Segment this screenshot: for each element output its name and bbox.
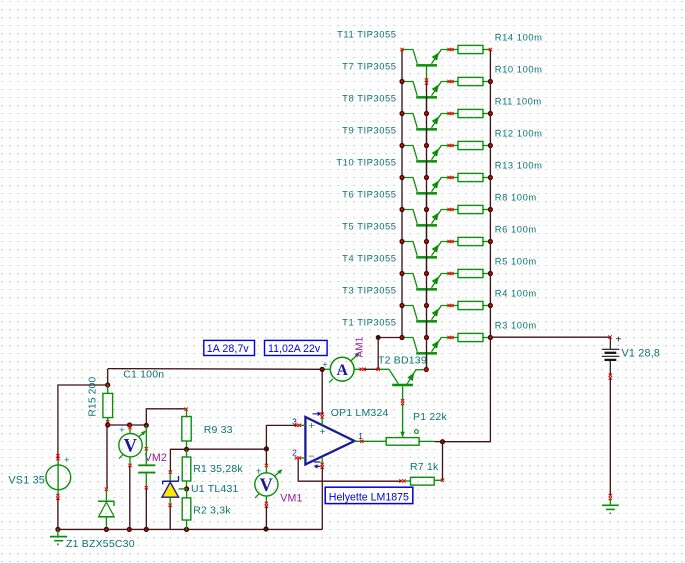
- node R9 bottom / ref: [184, 447, 189, 452]
- resistor R7 1k: [404, 477, 443, 485]
- transistor T6 TIP3055: [402, 210, 451, 242]
- wire supply bus top: [108, 368, 323, 371]
- resistor R14 100m: [451, 45, 491, 53]
- svg-text:R6 100m: R6 100m: [495, 223, 537, 234]
- node bus VM1: [263, 526, 268, 531]
- node VS1/R15: [105, 382, 110, 387]
- resistor R9 33: [182, 410, 191, 449]
- wire R15 to Z1: [106, 425, 108, 488]
- svg-text:C1 100n: C1 100n: [123, 368, 164, 380]
- pin VM2 bottom: [128, 464, 131, 467]
- svg-text:V: V: [124, 437, 138, 457]
- wire collector dogleg to AM1/T2: [378, 338, 402, 370]
- svg-text:R14 100m: R14 100m: [495, 31, 543, 42]
- wire V- to ground bus: [321, 467, 323, 529]
- svg-text:11,02A 22v: 11,02A 22v: [268, 343, 321, 355]
- node R15 bottom: [105, 422, 110, 427]
- resistor R3 100m: [451, 333, 491, 341]
- pin VM1 bottom: [265, 502, 268, 505]
- svg-text:R3 100m: R3 100m: [495, 319, 537, 330]
- svg-text:T4 TIP3055: T4 TIP3055: [342, 253, 396, 264]
- transistor T1 TIP3055: [402, 338, 451, 370]
- wire to op-amp pin3: [266, 425, 297, 449]
- pin C1 bottom: [145, 486, 148, 489]
- ground left: [50, 529, 67, 545]
- pin base rail top: [425, 78, 428, 81]
- node collector row T6: [399, 207, 404, 212]
- wire R15 bottom node: [108, 424, 147, 426]
- svg-text:OP1 LM324: OP1 LM324: [331, 407, 389, 419]
- node VM1 top junction: [264, 446, 269, 451]
- pin R9 top: [185, 408, 188, 411]
- wire ref node left to U1: [170, 449, 186, 471]
- wire V+ supply: [321, 369, 323, 414]
- svg-text:Z1 BZX55C30: Z1 BZX55C30: [66, 538, 135, 550]
- node emitter row R3: [488, 335, 493, 340]
- svg-text:T9 TIP3055: T9 TIP3055: [342, 125, 396, 136]
- resistor R15 200: [103, 385, 113, 425]
- svg-text:R5 100m: R5 100m: [495, 255, 537, 266]
- svg-text:T1 TIP3055: T1 TIP3055: [342, 317, 396, 328]
- ammeter AM1: [322, 353, 362, 383]
- svg-text:−: −: [308, 450, 314, 462]
- node P1 right junction: [440, 439, 445, 444]
- svg-text:2: 2: [292, 448, 297, 458]
- transistor T9 TIP3055: [402, 146, 451, 178]
- node base row T1: [424, 335, 429, 340]
- node emitter row R8: [488, 207, 493, 212]
- svg-text:VM1: VM1: [280, 493, 302, 505]
- capacitor C1 100n: [138, 425, 155, 487]
- resistor R6 100m: [451, 237, 491, 245]
- pin V1 bottom: [609, 374, 612, 377]
- transistor T11 TIP3055: [402, 50, 451, 82]
- wire node to R9 dogleg: [146, 409, 185, 426]
- pin VS1 top: [56, 454, 59, 457]
- svg-text:R7 1k: R7 1k: [410, 461, 439, 473]
- transistor T2 BD139: [379, 369, 426, 401]
- svg-text:T11 TIP3055: T11 TIP3055: [337, 29, 396, 40]
- node base row T6: [424, 207, 429, 212]
- wire right rail feedback to P1: [443, 337, 491, 441]
- wire C1 bottom: [145, 489, 147, 530]
- svg-text:V1 28,8: V1 28,8: [622, 347, 661, 359]
- svg-text:R9 33: R9 33: [204, 424, 233, 436]
- node C1 top: [144, 423, 149, 428]
- pin VS1 bottom: [56, 494, 59, 497]
- node emitter row R6: [488, 239, 493, 244]
- node bus VM2: [127, 527, 132, 532]
- wire U1 anode to bus: [169, 506, 171, 529]
- battery V1 28,8: [602, 337, 620, 375]
- zener diode Z1 BZX55C30: [98, 490, 115, 530]
- wire VM1 top: [265, 449, 267, 465]
- svg-text:V: V: [260, 476, 274, 496]
- svg-text:+: +: [119, 425, 125, 436]
- pin resistor left pins: [447, 48, 453, 339]
- node emitter row R13: [488, 175, 493, 180]
- pin U1 anode: [169, 504, 172, 507]
- node collector row T3: [399, 303, 404, 308]
- svg-text:R12 100m: R12 100m: [495, 127, 543, 138]
- node collector row T4: [399, 271, 404, 276]
- pin Z1 cathode: [105, 488, 108, 491]
- pin AM1 right: [360, 368, 363, 371]
- svg-text:A: A: [336, 362, 348, 379]
- wire VS1 top: [58, 385, 108, 459]
- node base row T9: [424, 143, 429, 148]
- resistor R13 100m: [451, 173, 491, 181]
- voltmeter VM1: [255, 466, 283, 503]
- ground right: [602, 498, 619, 514]
- pin VM1 top: [265, 464, 268, 467]
- wire base rail: [426, 82, 428, 370]
- resistor R4 100m: [451, 301, 491, 309]
- node VM2 top: [127, 422, 132, 427]
- svg-text:AM1: AM1: [355, 337, 366, 358]
- pin op-amp 1: [360, 440, 363, 443]
- wire V1 to ground: [609, 378, 611, 496]
- svg-text:+: +: [616, 335, 622, 346]
- pin VM2 top: [128, 426, 131, 429]
- svg-text:+: +: [64, 455, 70, 466]
- wire ground bus: [58, 528, 322, 530]
- svg-text:+: +: [256, 466, 262, 477]
- node base rail bottom / T2 collector: [424, 367, 429, 372]
- node collector dogleg corner: [376, 335, 381, 340]
- node emitter row R5: [488, 271, 493, 276]
- transistor T10 TIP3055: [402, 178, 451, 210]
- pin T2 base wire meet: [377, 368, 380, 371]
- svg-text:+: +: [320, 427, 326, 438]
- node collector row T9: [399, 143, 404, 148]
- wire R15 column top: [107, 369, 109, 385]
- svg-text:U1 TL431: U1 TL431: [191, 483, 239, 495]
- node R1/R2/ref: [184, 486, 189, 491]
- wire R7 to op-amp pin2: [298, 459, 401, 482]
- resistor R1 35,28k: [182, 449, 191, 488]
- transistor T8 TIP3055: [402, 114, 451, 146]
- node emitter row R10: [488, 79, 493, 84]
- pin R7 left: [399, 479, 402, 482]
- svg-text:T7 TIP3055: T7 TIP3055: [342, 61, 396, 72]
- wire VS1 bottom: [57, 498, 59, 529]
- node collector row T1: [399, 335, 404, 340]
- node collector row T11: [400, 48, 403, 51]
- transistor T3 TIP3055: [402, 306, 451, 338]
- node collector row T5: [399, 239, 404, 244]
- wire ref node right: [187, 448, 267, 450]
- pin R15 bottom: [106, 420, 109, 423]
- wire VM1 bottom: [265, 506, 267, 529]
- node bus VS1: [55, 527, 60, 532]
- svg-text:T5 TIP3055: T5 TIP3055: [342, 221, 396, 232]
- node emitter row R11: [488, 111, 493, 116]
- wire left collector rail: [401, 50, 403, 338]
- svg-text:R11 100m: R11 100m: [495, 95, 542, 106]
- label box 1A 28,7v: [204, 340, 255, 355]
- resistor R10 100m: [451, 77, 491, 85]
- pin R7 right: [441, 479, 444, 482]
- svg-text:R1 35,28k: R1 35,28k: [193, 463, 243, 475]
- node AM1 supply junction: [320, 367, 325, 372]
- svg-text:T8 TIP3055: T8 TIP3055: [342, 93, 396, 104]
- node base row T4: [424, 271, 429, 276]
- node collector row T10: [399, 175, 404, 180]
- svg-text:R10 100m: R10 100m: [495, 63, 543, 74]
- potentiometer P1 22k: [386, 404, 434, 446]
- node collector row T7: [399, 79, 404, 84]
- transistor T4 TIP3055: [402, 274, 451, 306]
- svg-text:VM2: VM2: [145, 452, 167, 464]
- resistor R11 100m: [451, 109, 491, 117]
- wire feedback node to R7: [442, 442, 444, 480]
- node base row T5: [424, 239, 429, 244]
- resistor R5 100m: [451, 269, 491, 277]
- svg-text:Helyette LM1875: Helyette LM1875: [329, 492, 409, 504]
- svg-text:VS1 35: VS1 35: [8, 475, 45, 487]
- svg-text:T10 TIP3055: T10 TIP3055: [336, 157, 396, 168]
- pin op-amp 3: [295, 424, 298, 427]
- node emitter row R4: [488, 303, 493, 308]
- voltmeter VM2: [119, 429, 146, 464]
- svg-text:T2 BD139: T2 BD139: [378, 355, 427, 367]
- wire P1 to feedback node: [435, 441, 443, 443]
- transistor T5 TIP3055: [402, 242, 451, 274]
- svg-text:R8 100m: R8 100m: [495, 191, 537, 202]
- svg-text:T6 TIP3055: T6 TIP3055: [342, 189, 396, 200]
- pin ground right: [609, 494, 612, 497]
- node bus C1: [144, 527, 149, 532]
- node base row T10: [424, 175, 429, 180]
- pin U1 cathode: [169, 471, 172, 474]
- pin op-amp V+: [321, 413, 324, 416]
- pin T2 base / P1 wiper: [401, 399, 404, 402]
- node base row T8: [424, 111, 429, 116]
- node emitter row R14: [489, 48, 492, 51]
- voltage source VS1 35: [46, 459, 71, 496]
- node bus Z1: [104, 527, 109, 532]
- svg-text:R2 3,3k: R2 3,3k: [193, 504, 231, 516]
- label box 11,02A 22v: [265, 340, 328, 355]
- wire output to battery V1: [490, 336, 610, 338]
- pin C1 top: [145, 447, 148, 450]
- wire right emitter rail: [489, 50, 491, 338]
- node bus R2: [184, 527, 189, 532]
- svg-text:R15 200: R15 200: [87, 377, 98, 417]
- wire VM2 bottom: [129, 466, 131, 529]
- svg-text:R13 100m: R13 100m: [495, 159, 543, 170]
- resistor R12 100m: [451, 141, 491, 149]
- resistor R2 3,3k: [182, 489, 191, 530]
- pin V1 top: [608, 335, 611, 338]
- svg-text:1A 28,7v: 1A 28,7v: [207, 343, 250, 355]
- transistor T7 TIP3055: [402, 82, 451, 114]
- pin op-amp 2: [295, 456, 298, 459]
- node collector row T8: [399, 111, 404, 116]
- node emitter row R12: [488, 143, 493, 148]
- op-amp OP1 LM324: [299, 412, 386, 468]
- svg-text:+: +: [308, 420, 314, 432]
- shunt regulator U1 TL431: [162, 473, 187, 504]
- pin op-amp V-: [321, 463, 324, 466]
- svg-text:P1 22k: P1 22k: [413, 411, 447, 423]
- label box Helyette LM1875: [325, 487, 413, 503]
- node base row T3: [424, 303, 429, 308]
- resistor R8 100m: [451, 205, 491, 213]
- svg-text:R4 100m: R4 100m: [495, 287, 537, 298]
- wire AM1 to T2: [364, 368, 378, 370]
- svg-text:T3 TIP3055: T3 TIP3055: [342, 285, 396, 296]
